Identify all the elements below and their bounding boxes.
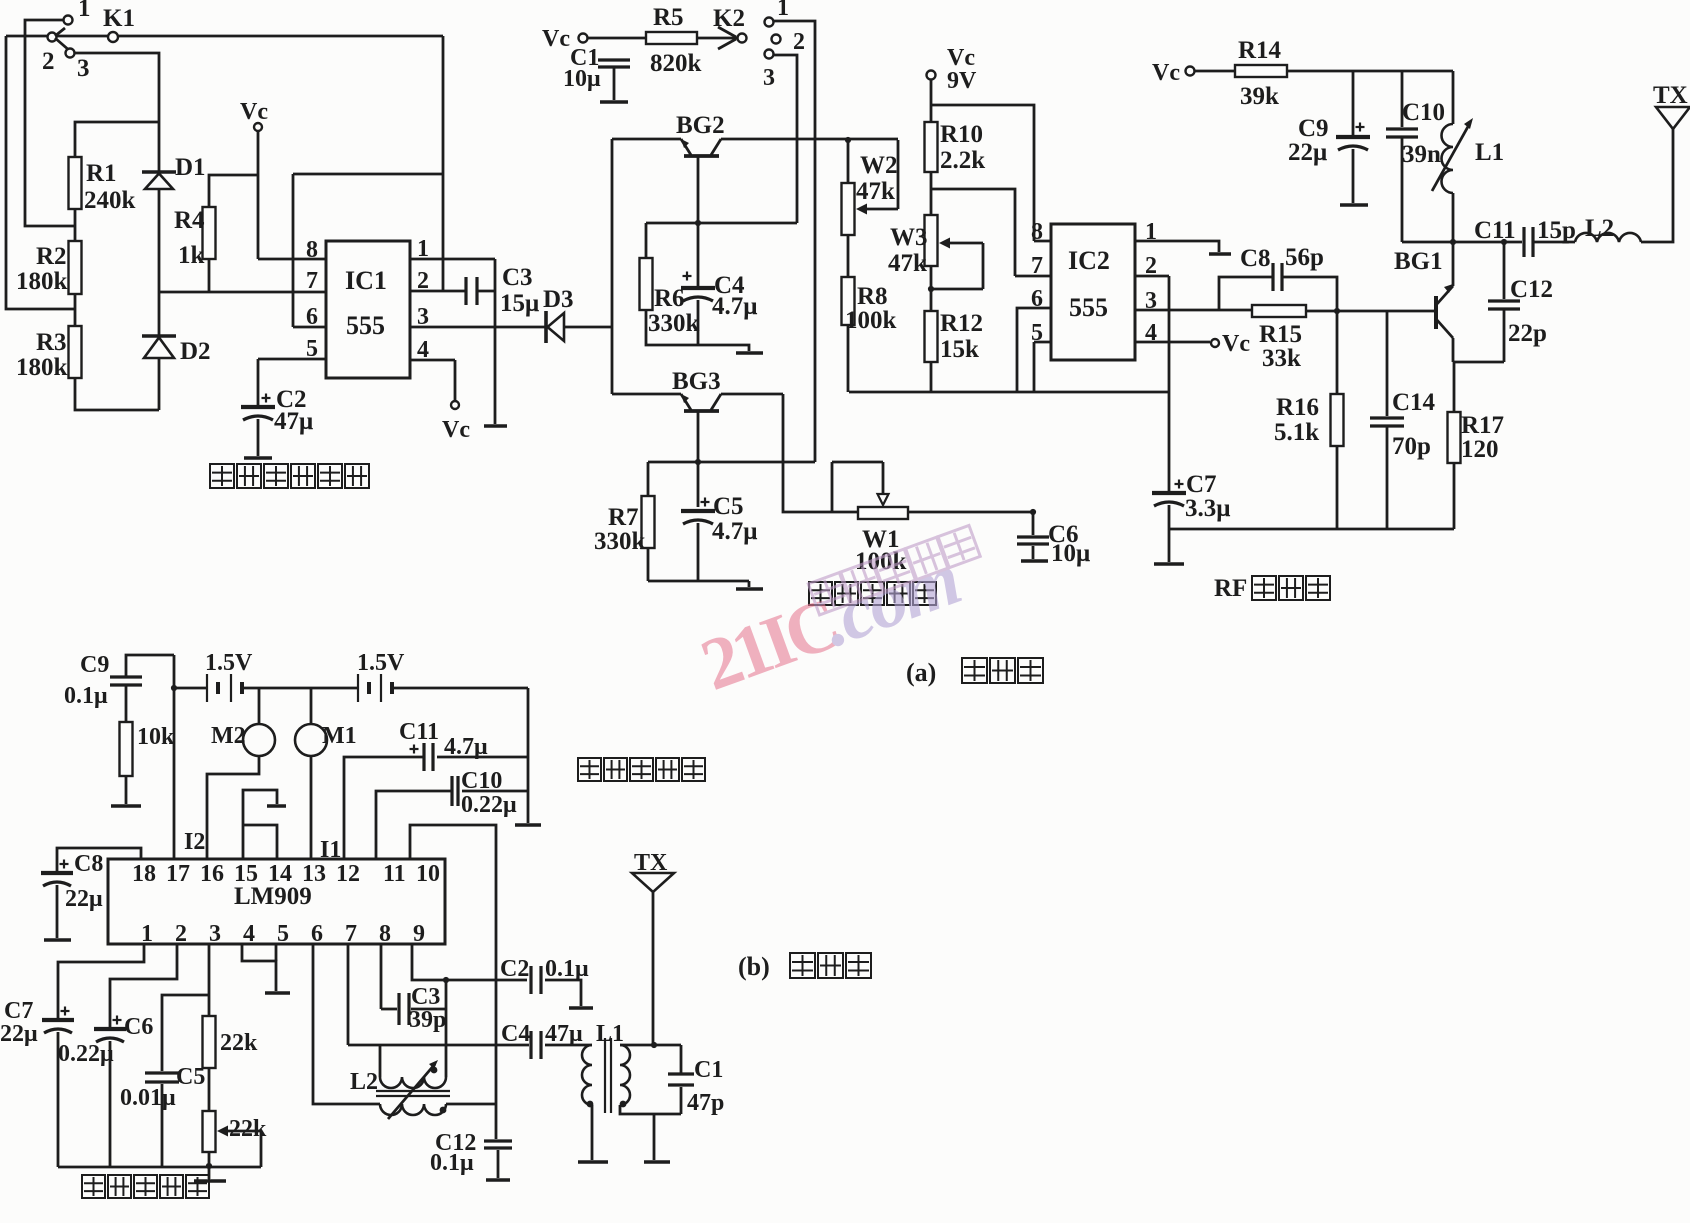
svg-text:3: 3 bbox=[209, 921, 221, 947]
svg-text:39n: 39n bbox=[1402, 141, 1441, 168]
svg-text:IC2: IC2 bbox=[1068, 246, 1110, 275]
label C14 bbox=[1392, 389, 1436, 416]
svg-text:D1: D1 bbox=[175, 154, 206, 181]
svg-text:16: 16 bbox=[200, 861, 224, 887]
diode D3 bbox=[546, 311, 564, 343]
svg-text:1k: 1k bbox=[178, 242, 205, 269]
power Vc (C1) bbox=[542, 26, 588, 52]
svg-text:5: 5 bbox=[1031, 320, 1043, 346]
label R12 bbox=[940, 310, 983, 337]
wire C5 bottom bbox=[697, 523, 700, 581]
label C7 rf bbox=[1186, 471, 1217, 498]
wire from K1 contact 1 bbox=[25, 20, 75, 226]
pin 18 bbox=[132, 861, 156, 887]
resistor R15 bbox=[1252, 305, 1306, 317]
wire from K1 contact 3 bbox=[74, 53, 159, 172]
label C3 bbox=[502, 264, 533, 291]
wire C9rx to 10k bbox=[125, 686, 128, 722]
label C1 bbox=[570, 45, 599, 71]
label 5.1k bbox=[1274, 419, 1319, 446]
svg-text:7: 7 bbox=[1031, 253, 1043, 279]
switch K2 arm bbox=[697, 27, 737, 49]
label R2 bbox=[36, 243, 67, 270]
svg-text:R3: R3 bbox=[36, 329, 67, 356]
svg-text:56p: 56p bbox=[1285, 244, 1324, 271]
label 0.1u (C12 rx) bbox=[430, 1150, 474, 1176]
label C8 rx bbox=[74, 851, 103, 877]
svg-text:22μ: 22μ bbox=[65, 886, 103, 912]
wire C3 right bbox=[477, 290, 495, 293]
svg-text:C5: C5 bbox=[176, 1064, 205, 1090]
wire IC1 pin 5 bbox=[258, 358, 326, 361]
label BG2 bbox=[676, 112, 725, 139]
pin 17 bbox=[166, 861, 190, 887]
wire IC1 pin 2 bbox=[410, 290, 466, 293]
wire BG1 emitter to C12 bbox=[1453, 361, 1504, 364]
label 47p bbox=[687, 1090, 724, 1116]
label 15k bbox=[940, 336, 979, 363]
svg-text:W2: W2 bbox=[860, 152, 898, 179]
svg-text:70p: 70p bbox=[1392, 433, 1431, 460]
svg-text:3: 3 bbox=[763, 65, 775, 91]
svg-text:1: 1 bbox=[417, 236, 429, 262]
svg-text:5: 5 bbox=[277, 921, 289, 947]
label C2 rx bbox=[500, 956, 529, 982]
wire C6 bottom bbox=[1032, 546, 1035, 559]
label 180k (R3) bbox=[16, 354, 68, 381]
capacitor C1 rx bbox=[668, 1074, 694, 1085]
capacitor C3 bbox=[466, 277, 477, 305]
ground (C2) bbox=[244, 456, 272, 460]
label 4.7u (C4) bbox=[712, 293, 757, 320]
wire C7rx bottom bbox=[57, 1032, 60, 1167]
transistor BG3 bbox=[612, 394, 783, 507]
resistor R1 bbox=[69, 157, 82, 209]
junction R16 top bbox=[1334, 308, 1340, 314]
svg-text:2: 2 bbox=[417, 268, 429, 294]
label C7 rx bbox=[4, 998, 33, 1024]
resistor R10 bbox=[925, 122, 938, 172]
wire C3 right vertical bbox=[445, 980, 448, 1077]
svg-text:22k: 22k bbox=[229, 1116, 267, 1142]
terminator bar pin15 bbox=[267, 804, 286, 807]
switch K2 contact 2 bbox=[772, 35, 781, 44]
pin 7 (IC1) bbox=[306, 268, 318, 294]
svg-text:4: 4 bbox=[1145, 320, 1157, 346]
label TX (transmitter) bbox=[1653, 82, 1688, 109]
label 0.22u (C10 rx) bbox=[461, 792, 517, 818]
label 47k (W2) bbox=[856, 178, 895, 205]
svg-text:15μ: 15μ bbox=[500, 290, 539, 317]
svg-text:15k: 15k bbox=[940, 336, 979, 363]
capacitor C3 rx bbox=[381, 993, 446, 1025]
svg-text:100k: 100k bbox=[845, 307, 897, 334]
label R3 bbox=[36, 329, 67, 356]
label 15p bbox=[1537, 217, 1576, 244]
switch K1 body circle bbox=[108, 32, 118, 42]
wire K2 contact1 down bbox=[773, 21, 815, 462]
label I1 bbox=[320, 837, 341, 863]
wire R14 to L1 top bbox=[1287, 70, 1453, 73]
svg-text:4.7μ: 4.7μ bbox=[712, 293, 757, 320]
wire pin14 loop bbox=[243, 825, 277, 859]
svg-text:1.5V: 1.5V bbox=[357, 650, 405, 676]
switch K2 contact 1 bbox=[765, 18, 774, 27]
wire battery to ground right bbox=[527, 688, 530, 823]
svg-text:BG3: BG3 bbox=[672, 368, 721, 395]
wire pin3 vertical bbox=[208, 944, 211, 1016]
svg-text:8: 8 bbox=[1031, 219, 1043, 245]
pin 11 bbox=[383, 861, 406, 887]
wire 22k to pot bbox=[208, 1068, 211, 1111]
switch K1 top rail wire bbox=[6, 35, 443, 38]
pin 4 (IC1) bbox=[417, 337, 429, 363]
power Vc (left) bbox=[240, 99, 268, 131]
label 100k (R8) bbox=[845, 307, 897, 334]
label 22k pot bbox=[229, 1116, 267, 1142]
svg-text:C11: C11 bbox=[1474, 217, 1516, 244]
resistor 22k bbox=[203, 1016, 216, 1068]
svg-text:Vc: Vc bbox=[442, 417, 470, 443]
label C6 rx bbox=[124, 1014, 153, 1040]
wire Vc to R14 bbox=[1194, 70, 1235, 73]
ground (R6/C4) bbox=[736, 351, 763, 355]
label 330k (R7) bbox=[594, 528, 646, 555]
capacitor C7 rx bbox=[42, 1007, 74, 1034]
svg-text:4.7μ: 4.7μ bbox=[712, 518, 757, 545]
svg-text:9V: 9V bbox=[947, 68, 977, 94]
wire pin2 net bbox=[110, 944, 177, 1028]
label 2 (K2) bbox=[793, 29, 805, 55]
wire pin6 net bbox=[313, 944, 380, 1104]
wire ground rail y392 bbox=[849, 391, 1169, 394]
pin 4 bbox=[243, 921, 255, 947]
wire C4 to L1 bbox=[545, 1044, 592, 1047]
label C12 rx bbox=[435, 1130, 476, 1156]
wire IC1 pin 4 bbox=[410, 360, 455, 401]
pin 8 bbox=[379, 921, 391, 947]
label 0.01u (C5 rx) bbox=[120, 1085, 176, 1111]
svg-text:0.22μ: 0.22μ bbox=[58, 1041, 114, 1067]
wire C6rx bottom bbox=[109, 1041, 112, 1167]
wire pin1 net bbox=[58, 944, 144, 1019]
ground (battery right) bbox=[515, 823, 541, 827]
resistor R7 bbox=[642, 462, 655, 548]
ic LM909 box bbox=[108, 859, 445, 944]
svg-text:C8: C8 bbox=[74, 851, 103, 877]
label 47u (C2) bbox=[274, 408, 313, 435]
junction C6 top bbox=[1030, 509, 1036, 515]
svg-text:C14: C14 bbox=[1392, 389, 1436, 416]
battery 1.5V right bbox=[358, 674, 392, 702]
svg-text:2: 2 bbox=[42, 48, 55, 75]
wire BG2 left vertical bbox=[611, 139, 614, 394]
power Vc (RF) bbox=[1152, 60, 1195, 86]
svg-text:3.3μ: 3.3μ bbox=[1185, 495, 1230, 522]
wire R10 bottom bbox=[930, 172, 933, 215]
label C3 rx bbox=[411, 984, 440, 1010]
wire R2-R3 bbox=[74, 294, 77, 326]
pin 2 (IC2) bbox=[1145, 253, 1157, 279]
svg-text:15p: 15p bbox=[1537, 217, 1576, 244]
wire C9rx top bbox=[126, 655, 174, 677]
potentiometer 22k bbox=[203, 1111, 262, 1167]
label 0.1u (C2 rx) bbox=[545, 956, 589, 982]
resistor R14 bbox=[1235, 65, 1287, 77]
svg-text:7: 7 bbox=[306, 268, 318, 294]
svg-text:R7: R7 bbox=[608, 504, 639, 531]
wire L1 primary ground bbox=[591, 1105, 594, 1160]
svg-text:10μ: 10μ bbox=[563, 66, 601, 92]
svg-text:K1: K1 bbox=[103, 5, 135, 32]
wire IC2 pin 8 bbox=[1034, 240, 1051, 243]
label 3.3u bbox=[1185, 495, 1230, 522]
wire IC2 pin 2 bbox=[1135, 276, 1169, 492]
svg-text:3: 3 bbox=[77, 55, 90, 82]
svg-text:R16: R16 bbox=[1276, 394, 1319, 421]
wire C10rx right bbox=[462, 790, 528, 793]
pin 6 (IC2) bbox=[1031, 286, 1043, 312]
resistor R5 bbox=[646, 32, 697, 44]
diode D2 bbox=[142, 336, 176, 358]
svg-text:820k: 820k bbox=[650, 50, 702, 77]
capacitor C5 rx bbox=[145, 1073, 179, 1082]
wire L2 to antenna bbox=[1641, 129, 1673, 242]
svg-text:Vc: Vc bbox=[1152, 60, 1180, 86]
label 2.2k bbox=[940, 147, 985, 174]
pin 1 (IC1) bbox=[417, 236, 429, 262]
pin 15 bbox=[234, 861, 258, 887]
ground (10k) bbox=[111, 804, 141, 808]
svg-text:18: 18 bbox=[132, 861, 156, 887]
inductor L2 rx bbox=[376, 1045, 450, 1119]
label C11 rf bbox=[1474, 217, 1516, 244]
pin 5 (IC2) bbox=[1031, 320, 1043, 346]
svg-text:C7: C7 bbox=[1186, 471, 1217, 498]
ground (loop filter) bbox=[194, 1167, 226, 1181]
label (a) transmitter bbox=[906, 658, 936, 687]
svg-text:M2: M2 bbox=[211, 723, 246, 749]
label 39p bbox=[409, 1007, 446, 1033]
wire IC2 pin 7 bbox=[1015, 275, 1051, 278]
svg-text:1: 1 bbox=[141, 921, 153, 947]
svg-text:6: 6 bbox=[306, 304, 318, 330]
svg-text:R6: R6 bbox=[654, 285, 685, 312]
label R7 bbox=[608, 504, 639, 531]
junction C12 top bbox=[1501, 239, 1507, 245]
label 0.1u (C9 rx) bbox=[64, 683, 108, 709]
capacitor C9 rf bbox=[1336, 71, 1370, 150]
label C4 rx bbox=[501, 1021, 530, 1047]
svg-text:47p: 47p bbox=[687, 1090, 724, 1116]
power Vc 9V bbox=[927, 45, 978, 94]
svg-text:R8: R8 bbox=[857, 283, 888, 310]
capacitor C14 bbox=[1370, 311, 1404, 529]
ground (C12 rx) bbox=[486, 1178, 510, 1182]
antenna TX (transmitter) bbox=[1656, 107, 1690, 129]
svg-text:Vc: Vc bbox=[240, 99, 268, 125]
junction BG2 base bbox=[695, 220, 701, 226]
wire C1 bottom bbox=[613, 68, 616, 100]
label 56p bbox=[1285, 244, 1324, 271]
wire C9 bottom bbox=[1352, 149, 1355, 203]
svg-text:K2: K2 bbox=[713, 5, 745, 32]
capacitor C4 bbox=[681, 272, 715, 302]
label 22u (C9 rf) bbox=[1288, 139, 1327, 166]
label 1.5V right bbox=[357, 650, 405, 676]
svg-text:47k: 47k bbox=[856, 178, 895, 205]
svg-text:13: 13 bbox=[302, 861, 326, 887]
svg-text:R14: R14 bbox=[1238, 37, 1282, 64]
capacitor C4 rx bbox=[531, 1031, 541, 1059]
wire 10k bottom bbox=[125, 776, 128, 804]
label M1 bbox=[322, 723, 357, 749]
svg-text:555: 555 bbox=[346, 311, 385, 340]
power Vc (pin4) bbox=[442, 401, 470, 443]
label 39k bbox=[1240, 83, 1279, 110]
pin 9 bbox=[413, 921, 425, 947]
label 820k bbox=[650, 50, 702, 77]
capacitor C8 rx bbox=[41, 848, 141, 886]
wire R7 bottom bbox=[647, 548, 650, 581]
label R10 bbox=[940, 121, 983, 148]
wire IC2 pin 3 bbox=[1135, 309, 1252, 312]
svg-text:3: 3 bbox=[1145, 288, 1157, 314]
ground (C2 rx) bbox=[569, 1006, 593, 1010]
svg-text:6: 6 bbox=[1031, 286, 1043, 312]
label loop filter bbox=[82, 1175, 209, 1198]
label 3 (K1) bbox=[77, 55, 90, 82]
wire IC2 pin 4 bbox=[1135, 341, 1210, 344]
label RF oscillator bbox=[1214, 575, 1247, 602]
label audio generator bbox=[809, 582, 936, 605]
wire BG1 base bbox=[1306, 310, 1436, 313]
capacitor C9 rx bbox=[110, 677, 142, 685]
svg-text:17: 17 bbox=[166, 861, 190, 887]
label R5 bbox=[653, 4, 684, 31]
label 22u (C7 rx) bbox=[0, 1021, 38, 1047]
label 1.5V left bbox=[205, 650, 253, 676]
ground (C9 rf) bbox=[1340, 203, 1368, 207]
svg-text:LM909: LM909 bbox=[234, 883, 312, 910]
svg-text:D2: D2 bbox=[180, 338, 211, 365]
pin 7 bbox=[345, 921, 357, 947]
wire C10rx left bbox=[376, 791, 452, 859]
wire RF output rail bbox=[1402, 241, 1522, 244]
svg-text:R4: R4 bbox=[174, 207, 205, 234]
watermark 21IC.com bbox=[690, 525, 998, 706]
transformer L1 rx bbox=[582, 1038, 630, 1113]
svg-text:10: 10 bbox=[416, 861, 440, 887]
label L2 rf bbox=[1585, 215, 1614, 242]
svg-text:RF: RF bbox=[1214, 575, 1247, 602]
label M2 bbox=[211, 723, 246, 749]
wire C4 bottom bbox=[697, 300, 700, 345]
resistor R4 bbox=[203, 207, 216, 259]
ground (C6) bbox=[1021, 559, 1048, 563]
switch K2 contact 3 bbox=[765, 50, 774, 59]
label 10k bbox=[137, 724, 175, 750]
pin 1 bbox=[141, 921, 153, 947]
svg-text:D3: D3 bbox=[543, 286, 574, 313]
svg-text:1: 1 bbox=[1145, 219, 1157, 245]
label 4.7u (C11 rx) bbox=[444, 734, 488, 760]
label L2 rx bbox=[350, 1069, 378, 1095]
microphone M1 bbox=[295, 688, 327, 756]
label BG3 bbox=[672, 368, 721, 395]
wire pin8 net bbox=[380, 944, 383, 1009]
inductor L1 rf bbox=[1432, 71, 1473, 242]
svg-text:R12: R12 bbox=[940, 310, 983, 337]
capacitor C11 rf bbox=[1524, 227, 1533, 257]
pin 12 bbox=[336, 861, 360, 887]
pin 6 (IC1) bbox=[306, 304, 318, 330]
svg-text:(b): (b) bbox=[738, 952, 770, 981]
svg-text:2: 2 bbox=[175, 921, 187, 947]
junction BG3 base bbox=[695, 459, 701, 465]
svg-text:R15: R15 bbox=[1259, 321, 1302, 348]
wire M1 to pin13 bbox=[310, 756, 313, 859]
wire C11rx right bbox=[437, 756, 528, 759]
wire pot bottom bbox=[208, 1152, 211, 1167]
svg-text:I2: I2 bbox=[184, 829, 205, 855]
label W2 bbox=[860, 152, 898, 179]
svg-text:L1: L1 bbox=[596, 1021, 624, 1047]
label R14 bbox=[1238, 37, 1282, 64]
svg-text:R1: R1 bbox=[86, 160, 117, 187]
svg-text:180k: 180k bbox=[16, 354, 68, 381]
wire R1 top bbox=[75, 122, 159, 157]
svg-text:22p: 22p bbox=[1508, 320, 1547, 347]
label 120 bbox=[1461, 436, 1499, 463]
label 70p bbox=[1392, 433, 1431, 460]
svg-text:7: 7 bbox=[345, 921, 357, 947]
wire IC2 pin 5 bbox=[1034, 342, 1051, 392]
wire demod C4 rail bbox=[348, 1044, 529, 1047]
svg-text:0.1μ: 0.1μ bbox=[64, 683, 108, 709]
transistor BG2 bbox=[612, 139, 898, 286]
pin 2 bbox=[175, 921, 187, 947]
svg-text:1: 1 bbox=[777, 0, 789, 21]
svg-text:330k: 330k bbox=[594, 528, 646, 555]
resistor R17 bbox=[1448, 362, 1461, 529]
label 22p bbox=[1508, 320, 1547, 347]
capacitor C1 bbox=[598, 60, 630, 67]
label C5 rx bbox=[176, 1064, 205, 1090]
label 1k bbox=[178, 242, 205, 269]
svg-text:22k: 22k bbox=[220, 1030, 258, 1056]
wire M2 to pin16 bbox=[207, 756, 259, 859]
label TX (receiver) bbox=[634, 850, 668, 876]
wire W3-R12 bbox=[930, 266, 933, 311]
label C4 bbox=[714, 272, 745, 299]
antenna TX (receiver) bbox=[632, 873, 674, 1045]
pin 7 (IC2) bbox=[1031, 253, 1043, 279]
wire C11 to L2 bbox=[1533, 241, 1575, 244]
label 15u (C3) bbox=[500, 290, 539, 317]
wire pin4/pin5 net bbox=[242, 944, 276, 991]
wire L1 secondary loop bottom bbox=[620, 1087, 681, 1114]
wire C5rx bottom bbox=[161, 1084, 164, 1167]
transistor BG1 bbox=[1436, 242, 1453, 362]
svg-text:R17: R17 bbox=[1461, 412, 1504, 439]
svg-text:240k: 240k bbox=[84, 187, 136, 214]
capacitor C10 rx bbox=[452, 776, 458, 806]
label 39n bbox=[1402, 141, 1441, 168]
ground (C8 rx) bbox=[44, 938, 71, 942]
resistor R16 bbox=[1331, 311, 1344, 529]
wire ground rail audio bbox=[648, 581, 749, 587]
